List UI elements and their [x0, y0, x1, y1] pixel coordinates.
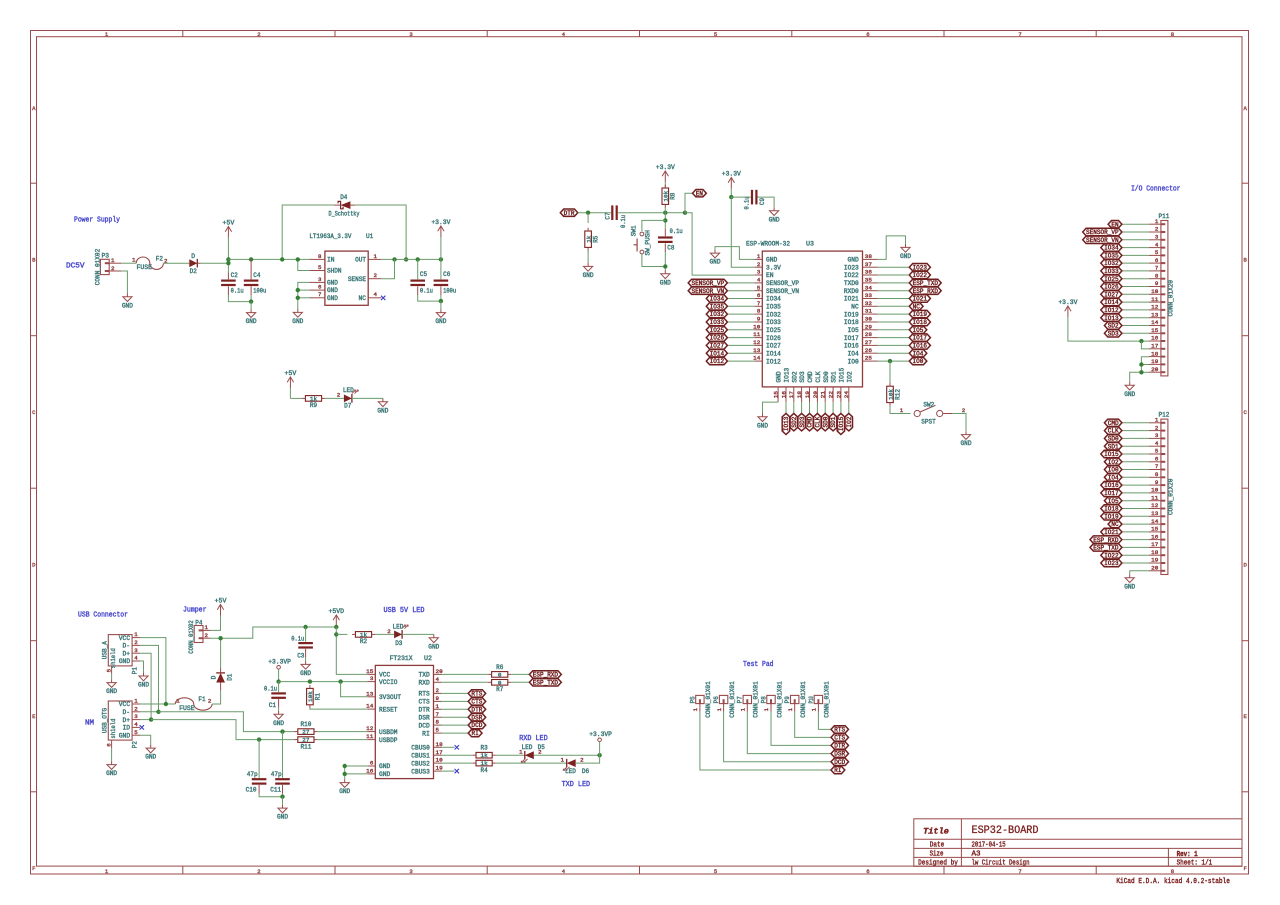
svg-text:GND: GND — [106, 770, 117, 777]
svg-text:CONN_01X01: CONN_01X01 — [729, 681, 736, 718]
ground under C1 — [273, 711, 284, 727]
wire P12 pin13 IO19 — [1122, 515, 1149, 517]
junction SW1 top branch — [663, 218, 667, 222]
svg-text:LED: LED — [343, 387, 354, 394]
svg-text:C8: C8 — [667, 244, 674, 251]
global label IO0 — [909, 357, 927, 365]
svg-text:GND: GND — [1124, 391, 1135, 398]
svg-text:TXD0: TXD0 — [844, 280, 859, 287]
no-connect U2 CBUS3 — [442, 770, 455, 772]
wire C2 C4 bottoms — [228, 295, 251, 302]
global label IO35 at P11 — [1101, 252, 1122, 260]
global label SD2 at P11 — [1104, 322, 1122, 330]
svg-text:35: 35 — [865, 277, 873, 284]
svg-text:IO33: IO33 — [710, 319, 725, 326]
svg-text:U3: U3 — [806, 241, 814, 248]
svg-text:GND: GND — [848, 257, 860, 264]
svg-text:4: 4 — [436, 676, 440, 683]
svg-text:IO5: IO5 — [913, 327, 924, 334]
wire R6 to ESP_RXD — [511, 673, 529, 675]
test pad connector P5 CONN_01X01 — [689, 681, 712, 718]
global label IO4 at P12 — [1104, 474, 1122, 482]
wire U3 pin14 IO12 — [727, 360, 754, 362]
KiCad footer text — [1116, 878, 1230, 886]
vertical global label SD3 — [798, 413, 806, 431]
wire U3 pin16 IO13 — [785, 402, 787, 413]
junction U2 GND pin6 — [343, 764, 347, 768]
global label IO34 — [706, 295, 727, 303]
svg-text:11: 11 — [1151, 494, 1159, 501]
wire U3 pin38 GND — [878, 236, 906, 260]
svg-text:6: 6 — [318, 284, 322, 291]
svg-text:IO14: IO14 — [1104, 299, 1119, 306]
push button SW1 SW_PUSH — [631, 225, 652, 255]
global label RTS at test pads — [831, 726, 849, 734]
wire P12 pin5 IO15 — [1122, 453, 1149, 455]
ground at P2 pin5 — [145, 745, 156, 761]
wire P11 pin11 IO14 — [1122, 301, 1149, 303]
svg-text:shield: shield — [110, 718, 117, 738]
svg-text:1: 1 — [374, 253, 378, 260]
global label IO32 — [706, 310, 727, 318]
svg-text:P7: P7 — [737, 696, 744, 703]
svg-text:Sheet: 1/1: Sheet: 1/1 — [1177, 860, 1213, 868]
svg-text:2: 2 — [757, 261, 761, 268]
svg-text:33: 33 — [865, 292, 873, 299]
svg-text:2: 2 — [580, 757, 584, 764]
vertical global label CMD — [806, 413, 814, 431]
junction D4 right — [404, 257, 408, 261]
svg-text:2: 2 — [337, 392, 341, 399]
wire U3 bottom pin15 to ground — [763, 402, 779, 413]
svg-text:LED: LED — [521, 744, 532, 751]
svg-text:SD2: SD2 — [791, 416, 798, 427]
svg-text:CBUS3: CBUS3 — [411, 768, 430, 775]
svg-text:DSR: DSR — [834, 751, 845, 758]
svg-text:7: 7 — [1018, 31, 1021, 38]
wire F2 to D2 — [163, 262, 189, 264]
svg-text:1: 1 — [176, 697, 180, 704]
svg-text:SPST: SPST — [921, 418, 936, 425]
ground under P2 shield — [106, 761, 117, 777]
svg-text:R7: R7 — [496, 686, 503, 693]
svg-text:D2: D2 — [190, 268, 197, 275]
vertical global label IO15 — [837, 413, 845, 434]
svg-text:SD0: SD0 — [823, 371, 830, 383]
svg-text:6: 6 — [1155, 257, 1159, 264]
svg-text:IO0: IO0 — [913, 358, 924, 365]
global label CLK at P12 — [1104, 427, 1122, 435]
wire C8 bottom to ground — [664, 252, 666, 270]
vertical global label SD0 — [822, 413, 830, 431]
global label IO21 — [909, 295, 930, 303]
svg-text:D_Schottky: D_Schottky — [329, 210, 360, 217]
svg-text:IO26: IO26 — [710, 335, 725, 342]
note Power Supply — [74, 217, 121, 225]
svg-text:6: 6 — [370, 760, 374, 767]
capacitor C1 0.1u — [264, 682, 286, 709]
svg-text:ESP_TXD: ESP_TXD — [533, 679, 559, 686]
svg-text:15: 15 — [1151, 526, 1159, 533]
global label SENSOR_VP — [688, 279, 727, 287]
svg-text:EN: EN — [1111, 221, 1119, 228]
global label CMD at P12 — [1104, 419, 1122, 427]
svg-text:CONN_01X01: CONN_01X01 — [824, 681, 831, 718]
svg-text:18: 18 — [1151, 350, 1159, 357]
svg-text:Title: Title — [923, 827, 949, 837]
global label RTS at U2 — [468, 690, 486, 698]
svg-text:GND: GND — [766, 257, 778, 264]
svg-text:2: 2 — [1155, 226, 1159, 233]
svg-text:13: 13 — [1151, 510, 1159, 517]
svg-text:23: 23 — [835, 390, 842, 398]
svg-text:P12: P12 — [1159, 412, 1170, 419]
global label ESP_TXD — [529, 679, 561, 687]
svg-text:F1: F1 — [198, 696, 205, 703]
svg-text:USB_OTG: USB_OTG — [102, 708, 109, 734]
svg-text:16: 16 — [1151, 533, 1159, 540]
wire U3 pin27 IO16 — [878, 344, 910, 346]
svg-text:GND: GND — [769, 216, 780, 223]
svg-text:RTS: RTS — [471, 691, 482, 698]
power +3.3V above R8 — [656, 164, 675, 188]
LED D3 USB 5V — [393, 624, 409, 647]
svg-text:2: 2 — [436, 687, 440, 694]
svg-text:3: 3 — [134, 647, 138, 654]
global label IO25 at P11 — [1101, 275, 1122, 283]
svg-text:A3: A3 — [972, 851, 982, 859]
global label IO5 at P12 — [1104, 497, 1122, 505]
svg-text:GND: GND — [776, 371, 783, 383]
svg-text:IO0: IO0 — [1108, 467, 1119, 474]
svg-text:CONN_01X02: CONN_01X02 — [188, 620, 195, 654]
svg-text:Jumper: Jumper — [183, 606, 207, 614]
svg-text:+5VD: +5VD — [329, 608, 345, 615]
ground under P12 — [1124, 574, 1135, 590]
svg-text:CBUS1: CBUS1 — [411, 752, 430, 759]
svg-text:TXD: TXD — [419, 672, 431, 679]
svg-text:D+: D+ — [123, 717, 131, 724]
svg-text:+3.3V: +3.3V — [431, 219, 450, 226]
svg-text:IO26: IO26 — [766, 335, 781, 342]
svg-text:ESP_RXD: ESP_RXD — [913, 288, 939, 295]
wire P6 to DCD — [724, 712, 831, 762]
wire P12 pin7 IO0 — [1122, 469, 1149, 471]
wire USB D- bus — [140, 645, 159, 711]
svg-text:OUT: OUT — [355, 257, 366, 264]
svg-text:RESET: RESET — [379, 706, 398, 713]
resistor R2 1k — [352, 631, 375, 645]
svg-text:SENSOR_VN: SENSOR_VN — [692, 288, 725, 295]
svg-text:DC5V: DC5V — [66, 262, 85, 270]
capacitor C8 0.1u — [658, 228, 683, 252]
test pad connector P8 CONN_01X01 — [760, 681, 783, 718]
svg-text:FUSE: FUSE — [137, 264, 153, 271]
global label EN — [693, 190, 707, 198]
svg-text:32: 32 — [865, 300, 873, 307]
wire U2 RI — [442, 732, 469, 734]
connector P1 USB_A — [102, 631, 140, 668]
wire U2 RXD to R7 — [442, 681, 489, 683]
junction D4 left — [280, 257, 284, 261]
svg-text:20: 20 — [1151, 565, 1159, 572]
svg-text:4: 4 — [134, 655, 138, 662]
svg-text:NC: NC — [913, 303, 921, 310]
wire R9 to D7 — [325, 397, 344, 399]
svg-text:P1: P1 — [132, 667, 139, 674]
fuse F2 — [132, 255, 168, 271]
wire DTR to C7 — [578, 212, 611, 214]
junction +3.3VP LEDs — [597, 753, 601, 757]
svg-text:IN: IN — [327, 257, 335, 264]
svg-text:2: 2 — [1155, 424, 1159, 431]
svg-text:11: 11 — [366, 733, 374, 740]
global label IO17 — [909, 334, 930, 342]
svg-text:+3.3VP: +3.3VP — [589, 731, 612, 738]
svg-text:DCD: DCD — [419, 722, 431, 729]
U3 left pins — [753, 253, 799, 365]
svg-text:D6: D6 — [582, 768, 589, 775]
junction C11 bottom — [280, 795, 284, 799]
svg-text:30: 30 — [865, 316, 873, 323]
svg-text:+3.3V: +3.3V — [1058, 299, 1077, 306]
svg-text:D3: D3 — [395, 640, 402, 647]
wire D4 feedback loop left leg — [282, 205, 334, 259]
svg-text:GND: GND — [435, 318, 446, 325]
global label IO12 at P11 — [1101, 306, 1122, 314]
svg-text:IO16: IO16 — [1104, 482, 1119, 489]
svg-text:1k: 1k — [585, 235, 592, 243]
svg-text:IO21: IO21 — [1104, 529, 1119, 536]
svg-text:DTR: DTR — [834, 743, 845, 750]
svg-text:100u: 100u — [253, 288, 266, 295]
svg-text:GND: GND — [246, 318, 257, 325]
svg-text:6: 6 — [866, 31, 869, 38]
ground at P1 pin4 — [138, 673, 149, 689]
svg-text:CBUS0: CBUS0 — [411, 745, 430, 752]
note DC5V — [66, 262, 85, 270]
wire EN branch up to EN label — [685, 193, 693, 213]
global label IO14 — [706, 350, 727, 358]
U2 right pins — [411, 668, 443, 775]
svg-text:2: 2 — [387, 628, 391, 635]
note USB 5V LED — [384, 607, 425, 615]
svg-text:8: 8 — [318, 253, 322, 260]
wire R12 to SW2 — [890, 406, 911, 414]
wire U2 RTS — [442, 692, 469, 694]
global label IO21 at P12 — [1101, 528, 1122, 536]
global label RI at test pads — [831, 766, 845, 774]
wire U3 pin23 IO15 — [840, 402, 842, 413]
svg-text:Test Pad: Test Pad — [743, 661, 774, 669]
connector P3 CONN_01X02 — [94, 249, 121, 286]
global label IO26 at P11 — [1101, 283, 1122, 291]
svg-text:24: 24 — [843, 390, 850, 398]
wire C7 to EN junction — [618, 212, 685, 214]
svg-text:CTS: CTS — [419, 699, 431, 706]
wire U3 pin9 IO33 — [727, 321, 754, 323]
svg-text:2: 2 — [111, 265, 115, 272]
global label NC at P12 — [1108, 520, 1122, 528]
resistor R3 1k — [473, 745, 496, 760]
wire P11 pin4 IO34 — [1122, 247, 1149, 249]
wire U3 pin4 SENSOR_VP — [727, 282, 754, 284]
svg-text:D-: D- — [123, 709, 131, 716]
title block — [914, 819, 1242, 868]
wire U3 pin25 IO0 — [878, 360, 910, 362]
svg-text:EN: EN — [696, 190, 704, 197]
resistor R1 10k — [307, 685, 322, 708]
svg-text:SD3: SD3 — [1108, 330, 1119, 337]
svg-text:R2: R2 — [360, 638, 367, 645]
wire P12 pin16 ESP_RXD — [1122, 539, 1149, 541]
global label IO5 — [909, 326, 927, 334]
svg-text:CONN_01X20: CONN_01X20 — [1167, 478, 1174, 515]
junction U2 GND pin16 — [343, 772, 347, 776]
wire U3 pin7 IO35 — [727, 305, 754, 307]
svg-text:5: 5 — [1155, 448, 1159, 455]
svg-text:8: 8 — [757, 308, 761, 315]
wire P11 pin7 IO33 — [1122, 270, 1149, 272]
wire D7 to ground — [352, 397, 383, 399]
diode D4 D_Schottky — [329, 194, 360, 217]
ground under C4 — [246, 309, 257, 325]
global label IO33 — [706, 318, 727, 326]
svg-text:SD0: SD0 — [822, 416, 829, 427]
svg-text:R8: R8 — [670, 192, 677, 199]
capacitor C6 — [434, 259, 457, 295]
capacitor C10 47p — [246, 740, 267, 794]
svg-text:GND: GND — [119, 732, 131, 739]
junction C3 top — [303, 625, 307, 629]
svg-text:17: 17 — [1151, 343, 1159, 350]
svg-text:NM: NM — [85, 719, 94, 727]
wire +5V to R9 — [290, 397, 302, 399]
junction VCC at P2 — [164, 702, 168, 706]
svg-text:C6: C6 — [443, 271, 450, 278]
svg-text:29: 29 — [865, 323, 873, 330]
note I/O Connector — [1131, 186, 1181, 194]
svg-text:IO33: IO33 — [766, 319, 781, 326]
junction P11 pin16 — [1139, 339, 1143, 343]
LED D6 TXD — [563, 757, 589, 775]
svg-text:5: 5 — [134, 729, 138, 736]
svg-text:5: 5 — [757, 284, 761, 291]
svg-text:0.1u: 0.1u — [420, 288, 433, 295]
svg-text:CTS: CTS — [834, 735, 845, 742]
wire C9 to ground — [758, 197, 775, 207]
svg-text:IO18: IO18 — [913, 319, 928, 326]
global label IO0 at P12 — [1104, 466, 1122, 474]
svg-text:IO0: IO0 — [848, 358, 860, 365]
wire P12 pin8 IO4 — [1122, 476, 1149, 478]
ground under C11 — [277, 805, 288, 821]
svg-text:KiCad E.D.A. kicad 4.0.2-stab: KiCad E.D.A. kicad 4.0.2-stable — [1116, 878, 1230, 886]
wire P8 to DTR — [771, 712, 831, 746]
wire P11 pin3 SENSOR_VN — [1122, 239, 1149, 241]
svg-text:ESP_TXD: ESP_TXD — [1093, 545, 1119, 552]
svg-text:+5V: +5V — [284, 370, 296, 377]
svg-text:0.1u: 0.1u — [291, 636, 304, 643]
svg-text:IO16: IO16 — [844, 343, 859, 350]
svg-text:14: 14 — [366, 703, 374, 710]
svg-text:SENSOR_VP: SENSOR_VP — [1086, 229, 1119, 236]
junction C10 top — [257, 737, 261, 741]
svg-text:GND: GND — [106, 688, 117, 695]
svg-text:1: 1 — [134, 631, 138, 638]
svg-text:D4: D4 — [340, 194, 347, 201]
svg-text:D7: D7 — [344, 402, 351, 409]
power +5V at jumper — [215, 597, 227, 618]
svg-text:GND: GND — [660, 279, 671, 286]
svg-text:VCCIO: VCCIO — [379, 679, 398, 686]
svg-text:13: 13 — [366, 690, 374, 697]
svg-text:10k: 10k — [663, 190, 670, 202]
wire U2 CBUS2 to R4 — [442, 762, 473, 764]
svg-text:22: 22 — [828, 390, 835, 398]
test pad connector P9 CONN_01X01 — [784, 681, 807, 718]
svg-text:I/O Connector: I/O Connector — [1131, 186, 1181, 194]
wire SW1 top branch — [642, 220, 665, 231]
pin number 2 at D3 — [387, 628, 391, 635]
svg-text:19: 19 — [1151, 557, 1159, 564]
svg-text:RXD LED: RXD LED — [519, 735, 548, 743]
global label IO33 at P11 — [1101, 267, 1122, 275]
wire +3.3VP rail to U2 VCCIO — [279, 681, 368, 683]
svg-text:0.1u: 0.1u — [620, 215, 627, 228]
wire R8 to DTR net — [664, 208, 666, 213]
wire P11 pin12 IO12 — [1122, 309, 1149, 311]
svg-text:36: 36 — [865, 269, 873, 276]
junction +5V rail — [226, 257, 230, 261]
wire P12 pin19 IO23 — [1122, 562, 1149, 564]
svg-text:NC: NC — [851, 304, 859, 311]
ground under C6 — [435, 309, 446, 325]
LED D7 — [343, 387, 358, 409]
svg-text:GND: GND — [379, 771, 391, 778]
global label SENSOR_VN at P11 — [1083, 236, 1122, 244]
svg-text:1k: 1k — [481, 752, 489, 759]
wire U2 DCD — [442, 724, 469, 726]
junction C6 bottom — [439, 299, 443, 303]
svg-text:SD3: SD3 — [799, 416, 806, 427]
svg-text:IO4: IO4 — [848, 350, 860, 357]
wire D6 to +3.3VP — [576, 755, 600, 763]
svg-text:DCD: DCD — [834, 759, 845, 766]
svg-text:IO34: IO34 — [710, 296, 725, 303]
capacitor C3 0.1u — [291, 627, 313, 660]
pin number 1 at D6 — [561, 757, 565, 764]
wire U3 pin20 CLK — [816, 402, 818, 413]
svg-text:C1: C1 — [269, 702, 276, 709]
connector P2 USB_OTG — [102, 698, 140, 741]
power +5VD — [329, 608, 345, 627]
svg-text:+5V: +5V — [215, 597, 227, 604]
svg-text:CONN_01X01: CONN_01X01 — [776, 681, 783, 718]
svg-text:5: 5 — [714, 31, 717, 38]
wire P11 pin9 IO26 — [1122, 286, 1149, 288]
svg-text:6: 6 — [866, 868, 869, 875]
svg-text:P6: P6 — [713, 696, 720, 703]
svg-text:15: 15 — [1151, 327, 1159, 334]
svg-text:ESP_RXD: ESP_RXD — [533, 672, 559, 679]
svg-text:CMD: CMD — [807, 371, 814, 383]
svg-text:FT231X: FT231X — [390, 655, 413, 662]
svg-text:DCD: DCD — [471, 722, 482, 729]
svg-text:1: 1 — [111, 257, 115, 264]
wire U3 pin19 CMD — [809, 402, 811, 413]
global label CTS at test pads — [831, 734, 849, 742]
